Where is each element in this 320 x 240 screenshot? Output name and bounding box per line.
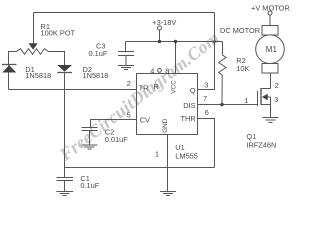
svg-text:0.1uF: 0.1uF: [80, 181, 99, 190]
svg-text:IRFZ46N: IRFZ46N: [246, 141, 276, 150]
svg-text:3: 3: [274, 95, 278, 104]
svg-text:LM555: LM555: [175, 151, 198, 160]
svg-text:CV: CV: [140, 115, 150, 124]
svg-text:1: 1: [155, 150, 159, 159]
svg-text:2: 2: [275, 81, 279, 90]
svg-text:3: 3: [204, 80, 208, 89]
svg-text:M1: M1: [266, 45, 278, 54]
svg-text:DIS: DIS: [183, 101, 195, 110]
svg-text:VCC: VCC: [171, 80, 178, 94]
svg-text:1N5818: 1N5818: [25, 71, 51, 80]
svg-text:7: 7: [203, 94, 207, 103]
svg-text:THR: THR: [181, 114, 196, 123]
svg-text:6: 6: [205, 108, 209, 117]
svg-text:4: 4: [150, 66, 154, 75]
svg-text:8: 8: [165, 66, 169, 75]
svg-text:1: 1: [244, 96, 248, 105]
svg-text:GND: GND: [162, 118, 169, 133]
svg-text:0.01uF: 0.01uF: [105, 135, 128, 144]
svg-text:+3-18V: +3-18V: [152, 18, 176, 27]
svg-text:0.1uF: 0.1uF: [89, 49, 108, 58]
svg-text:Q: Q: [190, 86, 196, 95]
svg-text:100K POT: 100K POT: [41, 28, 76, 37]
svg-text:10K: 10K: [236, 64, 249, 73]
svg-text:+V MOTOR: +V MOTOR: [251, 3, 290, 12]
svg-text:1N5818: 1N5818: [83, 71, 109, 80]
svg-text:TR: TR: [139, 84, 149, 93]
svg-text:R: R: [154, 82, 159, 91]
svg-text:DC MOTOR: DC MOTOR: [220, 26, 260, 35]
svg-text:5: 5: [127, 111, 131, 120]
svg-text:2: 2: [127, 79, 131, 88]
